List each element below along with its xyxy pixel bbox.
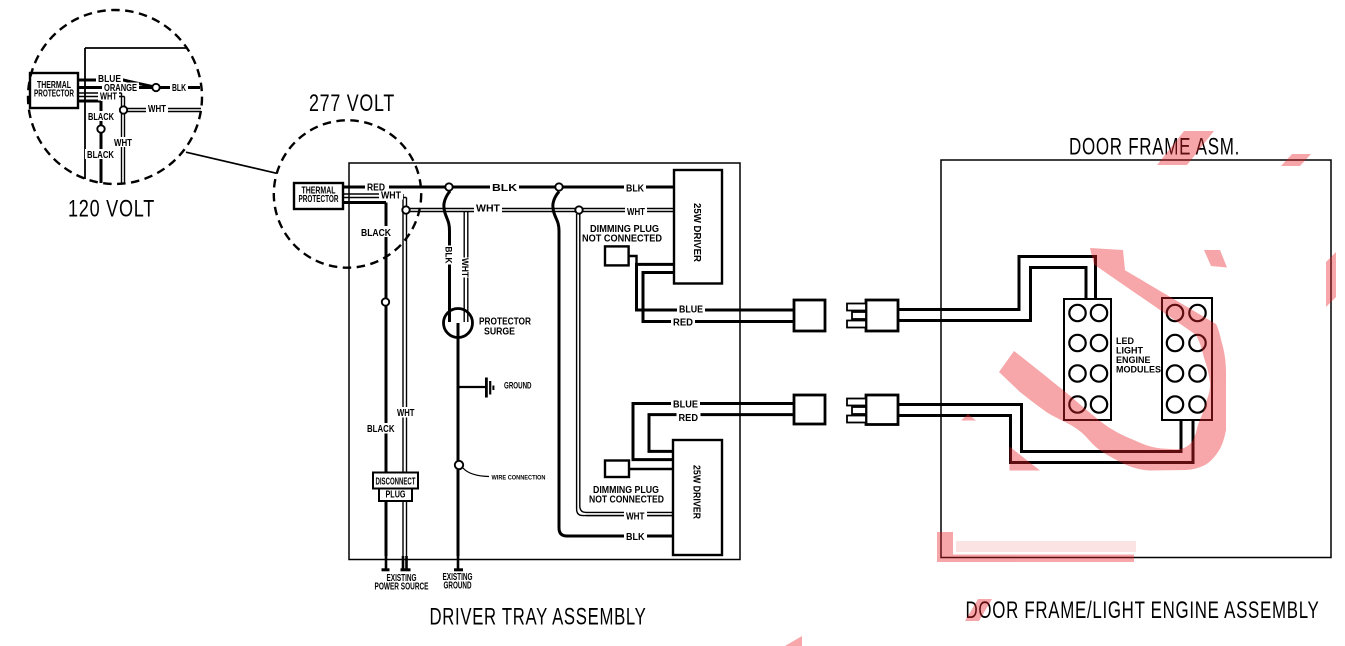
dimming plug square top: [605, 246, 629, 265]
leader line between detail circles: [186, 152, 277, 173]
svg-text:SURGE: SURGE: [484, 327, 515, 338]
wire BLK branch to surge protector: [444, 191, 450, 322]
wire connection leader: [463, 468, 489, 477]
wire WHT middle vertical double: [577, 214, 674, 516]
wire BLACK vertical (120V): [100, 101, 103, 183]
svg-text:MODULES: MODULES: [1116, 365, 1161, 375]
label WHT right top line: [625, 206, 647, 218]
svg-text:277 VOLT: 277 VOLT: [309, 90, 395, 117]
watermark triangle bottom center: [785, 636, 802, 646]
label BLACK lower: [85, 149, 116, 161]
svg-text:POWER SOURCE: POWER SOURCE: [375, 582, 429, 593]
dashed detail circle 120V: [28, 10, 202, 184]
connector female top: [794, 300, 825, 331]
25W driver box top: [674, 170, 722, 284]
wire BLK from junction to circle edge: [160, 86, 200, 89]
label BLK mid top line: [490, 181, 519, 194]
svg-text:RED: RED: [679, 413, 699, 424]
wire dimming plug stub top: [629, 256, 637, 264]
wire top pair outer: [898, 257, 1096, 310]
svg-text:WHT: WHT: [100, 92, 117, 103]
thermal protector TP1 box: [30, 73, 78, 108]
terminal tick BLACK: [382, 568, 390, 571]
junction node (WHT): [120, 106, 127, 113]
junction node RED/BLK 1: [445, 183, 452, 190]
watermark stripe top border right: [1281, 154, 1311, 166]
svg-text:DISCONNECT: DISCONNECT: [376, 477, 416, 488]
svg-text:WIRE CONNECTION: WIRE CONNECTION: [492, 475, 546, 482]
ground symbol: [485, 378, 488, 398]
connector male bottom body: [866, 395, 898, 425]
label WHT on vertical: [112, 137, 134, 149]
svg-text:WHT: WHT: [148, 104, 166, 115]
wire RED top output: [643, 273, 794, 322]
label WHT rotated (surge): [460, 258, 471, 278]
svg-text:WHT: WHT: [397, 408, 415, 419]
watermark patch on caption D: [965, 599, 992, 621]
label WHT mid top line: [474, 203, 502, 215]
wire RED/BLK top line: [343, 186, 674, 189]
watermark corner bar vertical: [937, 532, 953, 558]
wire WHT bottom line double: [586, 512, 674, 515]
svg-text:PLUG: PLUG: [386, 490, 406, 501]
svg-text:BLK: BLK: [626, 184, 645, 195]
svg-text:WHT: WHT: [460, 258, 470, 277]
svg-text:GROUND: GROUND: [444, 581, 472, 592]
wire WHT horizontal double from junction: [127, 109, 201, 112]
wire WHT vertical double (120V): [122, 93, 125, 184]
svg-text:PROTECTOR: PROTECTOR: [299, 194, 339, 205]
svg-text:25W DRIVER: 25W DRIVER: [691, 203, 702, 263]
svg-text:RED: RED: [673, 318, 693, 329]
label BLACK upper: [86, 111, 116, 123]
svg-text:120 VOLT: 120 VOLT: [68, 196, 155, 223]
svg-text:DRIVER TRAY ASSEMBLY: DRIVER TRAY ASSEMBLY: [430, 604, 647, 631]
wire WHT stub double from TP1: [78, 93, 125, 97]
terminal tick GROUND: [454, 568, 463, 571]
svg-text:BLACK: BLACK: [88, 112, 115, 123]
svg-text:DOOR FRAME/LIGHT ENGINE ASSEMB: DOOR FRAME/LIGHT ENGINE ASSEMBLY: [966, 597, 1320, 624]
watermark triangle left of door frame: [961, 414, 976, 421]
svg-text:BLK: BLK: [492, 183, 518, 194]
svg-text:WHT: WHT: [381, 191, 401, 202]
label BLUE top output: [677, 303, 705, 316]
label WHT (TP2): [379, 191, 403, 202]
wire BLUE stub from TP1: [78, 79, 98, 82]
wire BLACK left vertical: [385, 203, 388, 557]
label RED top output: [671, 316, 695, 329]
svg-text:WHT: WHT: [476, 204, 500, 215]
label RED bottom output: [677, 412, 701, 425]
svg-text:DOOR FRAME ASM.: DOOR FRAME ASM.: [1069, 134, 1240, 161]
junction node (BLACK): [97, 125, 104, 132]
wire ground branch: [458, 386, 485, 388]
wire bottom pair inner: [898, 416, 1193, 463]
label WHT stub: [98, 92, 119, 103]
svg-text:WHT: WHT: [114, 138, 132, 149]
label BLACK left lower: [365, 423, 397, 435]
watermark U swoosh shape: [999, 248, 1226, 471]
LED module left: [1064, 299, 1111, 420]
watermark fragment upper right: [1204, 250, 1227, 268]
label BLK right top line: [624, 182, 646, 195]
svg-text:LED: LED: [1116, 336, 1135, 346]
label WHT bottom line: [624, 511, 647, 523]
label BLACK (TP2): [359, 226, 393, 239]
label BLUE: [96, 73, 123, 85]
connector female bottom: [794, 395, 825, 424]
wire BLUE bottom output: [633, 404, 794, 460]
label ORANGE: [102, 83, 139, 95]
svg-text:BLK: BLK: [444, 247, 454, 264]
wire ORANGE to junction: [137, 86, 152, 89]
label BLK rotated (surge): [444, 246, 455, 265]
svg-text:BLK: BLK: [626, 532, 645, 543]
label WHT horizontal: [146, 104, 168, 115]
wire BLUE diagonal to junction: [121, 80, 152, 87]
label BLK bottom line: [624, 531, 647, 544]
wire bottom pair outer: [898, 405, 1181, 452]
connector male top body: [866, 300, 898, 331]
junction node (BLUE/ORANGE/BLK): [152, 84, 159, 91]
connector male bottom prongs: [847, 399, 866, 423]
label WHT left lower: [395, 407, 417, 419]
watermark bar right edge: [1326, 252, 1336, 307]
wire connection node: [455, 461, 463, 469]
svg-text:BLACK: BLACK: [87, 150, 115, 161]
junction node WHT main: [402, 206, 409, 213]
junction node BLACK left: [382, 298, 389, 305]
svg-text:NOT CONNECTED: NOT CONNECTED: [582, 234, 662, 245]
junction node WHT 2: [575, 206, 582, 213]
svg-text:BLACK: BLACK: [361, 228, 392, 239]
wire top pair inner: [898, 268, 1086, 321]
wire WHT horizontal double main: [406, 209, 674, 212]
svg-text:25W DRIVER: 25W DRIVER: [691, 465, 702, 520]
wire dimming plug stub bottom: [629, 468, 673, 470]
watermark corner bar horizontal: [937, 555, 1134, 563]
svg-text:LIGHT: LIGHT: [1116, 346, 1143, 356]
driver tray boundary box: [349, 163, 740, 560]
wire bottom terminals through border: [386, 556, 458, 569]
label BLK: [170, 83, 188, 95]
wire WHT stub double from TP2: [343, 194, 407, 198]
watermark ghost text band: [956, 541, 1136, 552]
wire ground vertical from surge: [457, 323, 460, 556]
label BLUE bottom output: [671, 398, 700, 411]
label RED (TP2): [365, 181, 389, 194]
svg-text:BLUE: BLUE: [679, 305, 703, 316]
svg-text:WHT: WHT: [627, 207, 645, 218]
svg-text:WHT: WHT: [626, 512, 645, 523]
svg-text:ENGINE: ENGINE: [1116, 355, 1151, 365]
svg-text:NOT CONNECTED: NOT CONNECTED: [589, 495, 664, 506]
svg-text:BLUE: BLUE: [673, 400, 698, 411]
thermal protector TP2 box: [294, 183, 343, 209]
disconnect plug box: [373, 473, 418, 502]
connector male top prongs: [847, 304, 866, 328]
door frame boundary box: [941, 160, 1331, 558]
svg-text:BLK: BLK: [172, 83, 187, 94]
watermark stripe over title: [1157, 131, 1214, 165]
terminal tick WHT: [401, 568, 411, 571]
svg-text:BLACK: BLACK: [367, 424, 395, 435]
surge protector circle: [444, 309, 473, 338]
junction node RED/BLK 2: [555, 183, 562, 190]
wire RED bottom output: [649, 415, 794, 452]
wire existing horizontal (120V detail): [85, 47, 187, 49]
wire WHT vertical at x406 upper: [403, 194, 407, 556]
25W driver box bottom: [673, 440, 722, 555]
watermark patch near wire corner: [1010, 447, 1041, 471]
LED module right: [1162, 298, 1212, 420]
wire existing vertical (120V detail): [84, 48, 86, 179]
wire ORANGE stub from TP1: [78, 86, 104, 89]
wire BLK middle vertical: [553, 192, 674, 537]
dimming plug square bottom: [605, 461, 629, 478]
dashed detail circle 277V: [274, 120, 421, 267]
svg-text:GROUND: GROUND: [504, 381, 532, 391]
wire BLACK stub from TP1: [78, 100, 101, 103]
wire BLUE top output: [637, 264, 795, 310]
wire WHT branch double to surge protector: [464, 212, 468, 323]
wire BLACK stub from TP2: [343, 201, 386, 204]
svg-text:PROTECTOR: PROTECTOR: [34, 89, 74, 100]
